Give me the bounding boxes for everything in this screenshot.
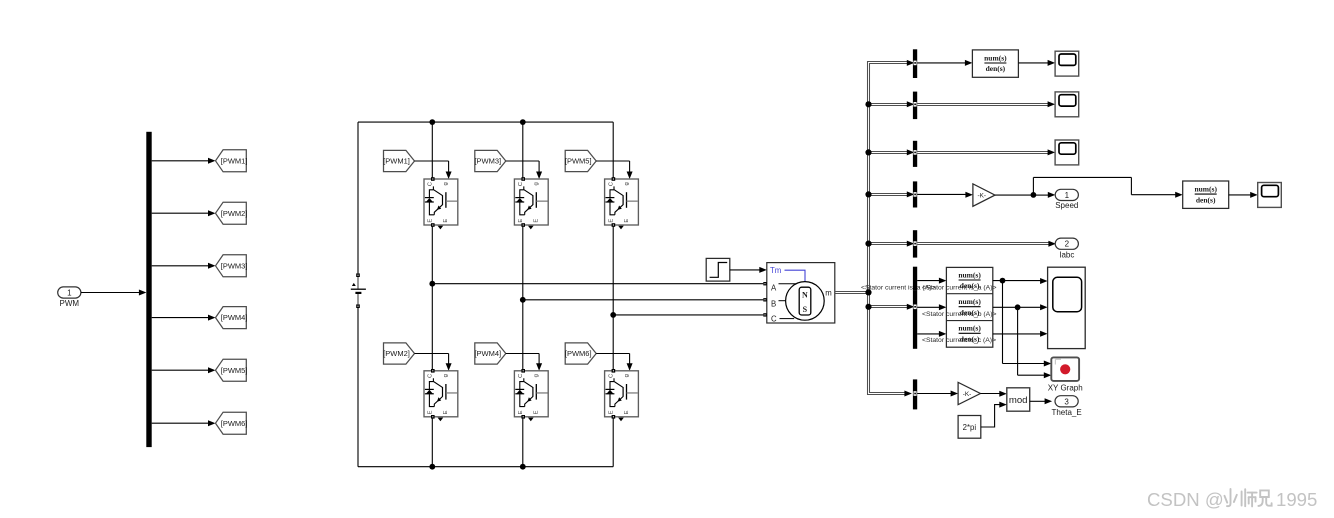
svg-text:mod: mod	[1009, 395, 1028, 406]
svg-text:g: g	[624, 374, 630, 377]
svg-text:N: N	[802, 291, 808, 300]
svg-text:A: A	[771, 283, 777, 292]
svg-text:1: 1	[1065, 191, 1070, 200]
svg-text:Speed: Speed	[1055, 201, 1078, 210]
svg-text:[PWM1]: [PWM1]	[221, 156, 248, 165]
svg-text:B: B	[771, 299, 776, 308]
svg-text:Iabc: Iabc	[1059, 250, 1074, 259]
svg-text:g: g	[443, 374, 449, 377]
svg-text:S: S	[803, 305, 808, 314]
svg-text:g: g	[624, 182, 630, 185]
svg-text:m: m	[825, 288, 832, 297]
svg-text:[PWM4]: [PWM4]	[221, 313, 248, 322]
svg-text:C: C	[518, 373, 524, 378]
svg-text:<Stator current is_c (A)>: <Stator current is_c (A)>	[922, 337, 996, 344]
svg-text:[PWM5]: [PWM5]	[221, 366, 248, 375]
svg-text:2*pi: 2*pi	[963, 423, 977, 432]
svg-text:g: g	[534, 182, 540, 185]
svg-text:1995: 1995	[1276, 489, 1317, 510]
svg-text:C: C	[428, 373, 434, 378]
svg-text:num(s): num(s)	[958, 324, 981, 333]
svg-text:[PWM4]: [PWM4]	[474, 349, 501, 358]
svg-text:E: E	[534, 219, 540, 223]
svg-text:E: E	[534, 410, 540, 414]
svg-text:CSDN @: CSDN @	[1147, 489, 1224, 510]
svg-text:Tm: Tm	[770, 266, 781, 275]
svg-text:E: E	[608, 410, 614, 414]
svg-text:1: 1	[67, 289, 72, 298]
svg-text:C: C	[608, 181, 614, 186]
svg-text:<Stator current is_a (A)>: <Stator current is_a (A)>	[922, 285, 996, 292]
svg-text:E: E	[443, 410, 449, 414]
svg-text:PWM: PWM	[60, 299, 80, 308]
svg-text:[PWM5]: [PWM5]	[565, 157, 592, 166]
svg-text:C: C	[771, 315, 777, 324]
svg-text:C: C	[428, 181, 434, 186]
svg-text:XY Graph: XY Graph	[1048, 384, 1083, 393]
svg-text:E: E	[518, 410, 524, 414]
svg-text:num(s): num(s)	[1194, 185, 1217, 194]
svg-text:num(s): num(s)	[958, 297, 981, 306]
svg-text:g: g	[534, 374, 540, 377]
svg-text:-K-: -K-	[977, 192, 986, 199]
svg-text:[PWM2]: [PWM2]	[221, 209, 248, 218]
svg-text:den(s): den(s)	[986, 64, 1006, 73]
svg-text:Theta_E: Theta_E	[1051, 408, 1081, 417]
svg-text:g: g	[443, 182, 449, 185]
svg-text:C: C	[518, 181, 524, 186]
svg-text:E: E	[428, 410, 434, 414]
svg-text:num(s): num(s)	[958, 270, 981, 279]
svg-text:E: E	[624, 219, 630, 223]
svg-text:-K-: -K-	[963, 391, 972, 398]
svg-text:[PWM6]: [PWM6]	[221, 419, 248, 428]
svg-text:C: C	[608, 373, 614, 378]
svg-text:<Stator current is_b (A)>: <Stator current is_b (A)>	[922, 311, 996, 318]
svg-text:[PWM1]: [PWM1]	[383, 157, 410, 166]
svg-text:3: 3	[1064, 397, 1069, 406]
svg-text:[PWM3]: [PWM3]	[221, 261, 248, 270]
svg-text:den(s): den(s)	[1196, 195, 1216, 204]
svg-text:E: E	[518, 219, 524, 223]
svg-text:[PWM2]: [PWM2]	[383, 349, 410, 358]
svg-text:E: E	[443, 219, 449, 223]
svg-text:2: 2	[1065, 240, 1070, 249]
svg-text:E: E	[428, 219, 434, 223]
svg-text:num(s): num(s)	[984, 53, 1007, 62]
svg-text:[PWM3]: [PWM3]	[474, 157, 501, 166]
svg-text:E: E	[624, 410, 630, 414]
svg-text:[PWM6]: [PWM6]	[565, 349, 592, 358]
svg-text:E: E	[608, 219, 614, 223]
